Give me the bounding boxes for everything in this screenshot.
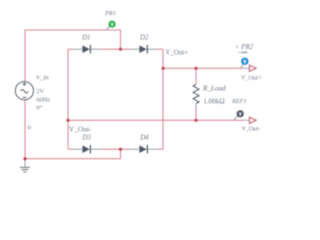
wire: V_Out- gray tail at probe (244, 119, 250, 121)
svg-text:V_Out-: V_Out- (242, 126, 261, 133)
svg-text:V_Out-: V_Out- (69, 124, 92, 133)
wire: row1 segments around D1,D2 (68, 48, 163, 50)
diode D1 (74, 45, 101, 54)
svg-text:D1: D1 (81, 34, 90, 41)
wire: bottom row ground junction to bridge bottom junction (25, 149, 121, 159)
wire: source bottom to ground junction (24, 100, 26, 159)
diode D3 (74, 145, 101, 154)
source V_In symbol (15, 82, 33, 100)
svg-text:D4: D4 (139, 134, 149, 141)
label -REF1 tiny (239, 51, 241, 54)
junction ground node 0 (23, 157, 26, 160)
svg-text:R_Load: R_Load (202, 84, 226, 92)
svg-text:60Hz: 60Hz (36, 97, 50, 104)
svg-text:V_In: V_In (36, 74, 49, 81)
wire: R_Load top connection (195, 68, 197, 83)
svg-text:V_Out+: V_Out+ (241, 75, 262, 82)
svg-text:D3: D3 (81, 134, 91, 141)
svg-text:PR1: PR1 (104, 10, 116, 17)
junction D3 cathode / D4 anode / AC input 2 (119, 148, 122, 151)
diode D4 (130, 145, 157, 154)
wire: row3 segments around D3,D4 (68, 148, 130, 150)
resistor R_Load (193, 83, 199, 107)
junction R_Load top on V_Out+ rail (194, 67, 197, 70)
wire: right branch D2 cathode down to D4 cathode (157, 49, 163, 149)
wire: V_Out- rail to REF1 arrow (68, 119, 244, 121)
ground (20, 159, 30, 172)
wire: top loop from source to bridge top junction (25, 30, 121, 82)
svg-text:+ PR2: + PR2 (235, 44, 254, 51)
svg-text:V_Out+: V_Out+ (165, 48, 188, 56)
diode D2 (130, 45, 157, 54)
junction D1 cathode / D2 anode / AC input 1 (119, 48, 122, 51)
junction V_Out+ tee at right branch (161, 67, 164, 70)
PR2 arrow (249, 65, 256, 71)
wire: V_Out+ gray tail at probe (243, 67, 249, 69)
wire: R_Load bottom connection (195, 106, 197, 120)
svg-text:1.00kΩ: 1.00kΩ (203, 97, 224, 105)
junction V_Out- tee at left branch (66, 119, 69, 122)
wire: V_Out+ rail to PR2 arrow (163, 67, 243, 69)
wire: left branch D1 anode to D3 anode (67, 49, 69, 149)
svg-text:D2: D2 (139, 34, 149, 41)
probe REF1 (234, 110, 244, 120)
probe PR2 (241, 58, 249, 68)
REF1 arrow (249, 117, 256, 123)
svg-text:2V: 2V (36, 88, 44, 95)
svg-text:0: 0 (28, 125, 32, 132)
svg-text:REF1: REF1 (231, 99, 246, 105)
probe PR1 (107, 21, 116, 30)
junction R_Load bottom on V_Out- rail (194, 119, 197, 122)
svg-text:0°: 0° (36, 105, 42, 112)
